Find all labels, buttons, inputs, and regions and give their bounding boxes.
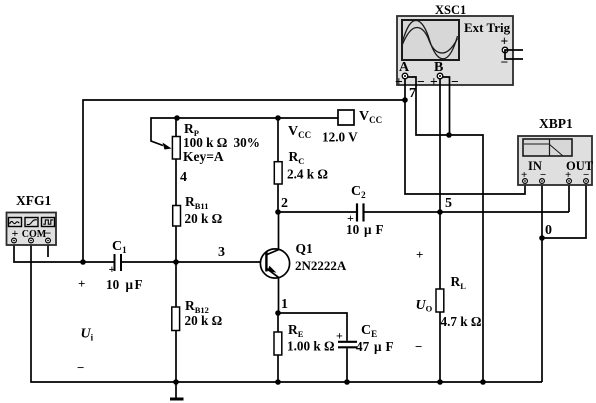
svg-text:COM: COM [22, 229, 47, 240]
junction RC top [275, 115, 281, 121]
svg-text:5: 5 [445, 196, 452, 211]
junction XFG1/C1 [80, 259, 86, 265]
junction node 5 [437, 209, 443, 215]
resistor RC body [274, 162, 282, 184]
svg-text:−: − [417, 74, 425, 89]
svg-text:−: − [45, 226, 52, 240]
XBP1 IN minus terminal [540, 179, 545, 184]
svg-text:2N2222A: 2N2222A [295, 258, 347, 273]
svg-text:2: 2 [281, 196, 288, 211]
wire: RB12 top [175, 262, 177, 307]
XFG1 plus terminal [12, 238, 17, 243]
svg-text:20 k Ω: 20 k Ω [185, 313, 223, 328]
wire: Rp bottom to RB11 top (node 4) [175, 159, 177, 205]
svg-text:10: 10 [346, 222, 360, 237]
resistor RL body [436, 289, 444, 312]
svg-text:−: − [77, 360, 84, 375]
XBP1 bode response curve [524, 144, 563, 156]
junction node 3 divider [173, 259, 179, 265]
svg-text:μ: μ [364, 222, 372, 237]
resistor RE body [274, 332, 282, 355]
instrument XSC1 oscilloscope [395, 16, 513, 89]
svg-text:+: + [416, 247, 423, 262]
wire: Rp top stub [175, 118, 177, 136]
svg-text:XBP1: XBP1 [539, 116, 573, 131]
junction node 0 [539, 235, 545, 241]
wire: node 2 to C2 [278, 211, 356, 213]
svg-text:XSC1: XSC1 [435, 3, 466, 17]
svg-text:μ: μ [126, 277, 134, 292]
svg-text:+: + [12, 226, 19, 240]
svg-text:12.0 V: 12.0 V [322, 130, 358, 145]
wire: VCC top rail [177, 117, 338, 119]
wire: C1 to Q1 base [121, 261, 266, 263]
wire: RE bottom to ground rail [277, 355, 279, 382]
svg-text:1: 1 [281, 297, 288, 312]
XSC1 screen [402, 20, 459, 60]
wire: bode OUT plus down to node 5 [568, 181, 570, 212]
svg-text:F: F [386, 339, 394, 354]
transistor Q1 [260, 249, 289, 278]
svg-text:+: + [336, 329, 343, 343]
wire: bode IN minus down to ground rail [541, 181, 543, 382]
XSC1 ext trig terminal [502, 47, 508, 53]
wire: scope B minus joining ground line [443, 77, 450, 135]
XSC1 screen sine trace 2 [402, 28, 458, 54]
wire: scope A plus down and to bode IN plus [405, 78, 525, 194]
XSC1 channel A terminal [402, 73, 408, 79]
wire: ext trig minus stub [505, 50, 523, 59]
XSC1 screen sine trace 1 [402, 21, 458, 59]
junction Rp top [174, 115, 180, 121]
wire: RB11 bottom to node 3 [175, 226, 177, 262]
svg-text:20 k Ω: 20 k Ω [185, 211, 223, 226]
XFG1 COM terminal [29, 238, 34, 243]
svg-text:−: − [415, 339, 422, 354]
svg-text:+: + [501, 34, 509, 49]
svg-text:+: + [395, 74, 403, 89]
wire: scope A minus to ground riser [408, 77, 484, 382]
wire: potentiometer wiper loop [151, 118, 177, 146]
svg-text:7: 7 [409, 86, 416, 101]
svg-text:47: 47 [356, 339, 370, 354]
svg-text:B: B [434, 60, 443, 75]
svg-text:+: + [430, 74, 438, 89]
wire: ext trig plus stub [505, 49, 523, 51]
XBP1 OUT plus terminal [567, 179, 572, 184]
svg-text:F: F [376, 222, 384, 237]
XBP1 OUT minus terminal [584, 179, 589, 184]
XFG1 square waveform button [42, 218, 55, 227]
XFG1 sine waveform button [9, 218, 22, 227]
wire: bode OUT minus to node 0 [542, 181, 586, 238]
junction RL ground [437, 379, 443, 385]
svg-text:−: − [451, 74, 459, 89]
resistor RB12 body [172, 307, 180, 331]
power VCC source box [338, 110, 354, 125]
svg-text:3: 3 [218, 245, 225, 260]
svg-text:μ: μ [374, 339, 382, 354]
wire: scope B plus down to node 5 [439, 78, 441, 212]
XFG1 minus terminal [46, 238, 51, 243]
svg-text:0: 0 [545, 223, 552, 238]
wire: Q1 collector [278, 212, 280, 250]
potentiometer RP body [163, 137, 181, 160]
svg-text:4: 4 [180, 170, 187, 185]
XBP1 screen divider [549, 139, 551, 156]
wire: Q1 emitter to node 1 [278, 277, 280, 313]
wire: RL top [439, 212, 441, 289]
svg-text:+: + [78, 276, 85, 291]
XFG1 ramp waveform button [25, 218, 38, 227]
capacitor CE [338, 342, 357, 348]
svg-text:F: F [135, 277, 143, 292]
wire: RB12 bottom to ground rail [175, 331, 177, 383]
wire: RE top [277, 313, 279, 332]
junction scope B minus [446, 132, 452, 138]
wire: node7 vertical left riser [83, 100, 405, 262]
junction node 2 [275, 209, 281, 215]
XBP1 IN plus terminal [523, 179, 528, 184]
wire: XFG1 plus to node7 junction [14, 242, 83, 262]
wire: node 1 to CE [278, 313, 347, 341]
svg-text:100 k Ω: 100 k Ω [183, 135, 227, 150]
junction node7 input [402, 97, 408, 103]
junction RE ground [275, 379, 281, 385]
wire: RC top [277, 118, 279, 161]
wire: CE bottom to ground rail [346, 348, 348, 382]
svg-text:+: + [109, 262, 116, 276]
wire: bottom ground rail [31, 242, 542, 382]
resistor RB11 body [173, 206, 181, 227]
XBP1 screen [523, 139, 572, 156]
wire: node 3 line from junction to C1 [83, 261, 114, 263]
instrument XBP1 bode plotter [518, 136, 594, 185]
junction node 1 [275, 310, 281, 316]
wire: node 5 horizontal line [365, 211, 570, 213]
XSC1 channel B terminal [437, 73, 443, 79]
svg-text:Q1: Q1 [296, 241, 314, 256]
wire: RL bottom to ground rail [439, 312, 441, 382]
svg-text:2.4 k Ω: 2.4 k Ω [287, 167, 328, 182]
ground [170, 382, 184, 399]
capacitor C1 [115, 254, 122, 271]
svg-text:1.00 k Ω: 1.00 k Ω [287, 339, 335, 354]
svg-text:10: 10 [106, 277, 120, 292]
wire: XFG1 minus stub [47, 242, 49, 257]
svg-text:Key=A: Key=A [183, 149, 224, 164]
junction CE ground [344, 379, 350, 385]
junction RB12 ground [173, 379, 179, 385]
instrument XFG1 function generator [7, 213, 57, 246]
svg-text:30%: 30% [234, 135, 260, 150]
svg-text:XFG1: XFG1 [16, 193, 51, 208]
capacitor C2 [357, 203, 364, 221]
junction scope ground riser [480, 379, 486, 385]
wire: RC bottom to node 2 [277, 184, 279, 212]
svg-text:4.7 k Ω: 4.7 k Ω [441, 314, 482, 329]
